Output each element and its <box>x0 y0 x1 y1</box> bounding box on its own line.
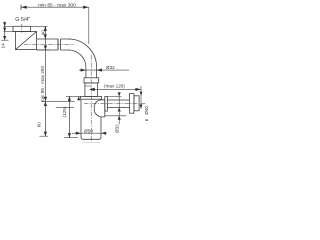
upper body inner line <box>85 85 91 87</box>
cup inner bottom faint <box>82 141 100 143</box>
arrow d32 right <box>97 69 102 72</box>
arrow 60 top <box>44 101 47 106</box>
dimension 40 <box>31 26 48 39</box>
vertical pipe <box>86 67 97 78</box>
inlet nut G5/4 <box>13 26 31 31</box>
arrow right of top dimension <box>83 6 89 9</box>
arrow d32 outlet bottom <box>118 116 121 120</box>
pipe joint line <box>57 39 59 50</box>
bend outer arc <box>69 39 97 67</box>
arrow left of top dimension <box>21 6 27 9</box>
svg-text:(125): (125) <box>62 106 67 117</box>
arrow 40 bottom <box>44 34 47 39</box>
cup joint flange <box>81 96 102 99</box>
flange top extension <box>107 95 121 97</box>
small mark below d40 label <box>145 119 148 121</box>
extension line right of max120 and d40 <box>140 86 142 109</box>
arrow 125 top <box>68 96 71 101</box>
pipe bottom extension <box>37 49 50 51</box>
outlet big nut <box>130 94 134 114</box>
bend inner arc <box>69 50 86 67</box>
svg-text:Ø32: Ø32 <box>106 65 115 70</box>
svg-text:Ø32: Ø32 <box>115 124 120 133</box>
outlet bullet nut at cup <box>94 100 105 117</box>
trap inlet nut <box>84 78 99 83</box>
arrow min85max250 top <box>44 46 47 51</box>
arrow 14 top <box>3 22 6 26</box>
arrow d50 right outside <box>101 132 106 135</box>
trap upper body <box>85 83 98 97</box>
tick at outlet axis <box>42 100 75 102</box>
arrow d32 outlet top <box>118 92 121 96</box>
nut centerline <box>21 24 23 34</box>
horizontal outlet pipe segment 1 <box>37 39 58 50</box>
elbow diagonal <box>16 32 37 50</box>
dimension diameter 32 vertical pipe <box>79 69 129 71</box>
dimension d32 outlet tube <box>118 93 120 124</box>
dimension d50 line <box>72 132 106 134</box>
dimension min 85 - max 250 <box>44 39 46 101</box>
mystery extension line <box>56 107 74 109</box>
svg-text:Ø40: Ø40 <box>144 106 149 115</box>
arrow 40 top <box>44 26 47 31</box>
svg-text:min 85 - max 250: min 85 - max 250 <box>40 66 45 103</box>
outlet centerline <box>84 103 147 105</box>
tick 125 top <box>66 95 81 97</box>
arrow d50 left outside <box>76 132 81 135</box>
arrow min85max250 bottom <box>44 97 47 102</box>
pipe centerline <box>24 44 74 46</box>
tick 125 bottom <box>64 137 78 139</box>
dimension min 85 - max 300 top <box>21 5 89 44</box>
dimension max 120 <box>95 88 141 90</box>
dimension d40 arrows <box>140 92 143 96</box>
outlet end ring d40 <box>134 96 139 111</box>
arrow 14 lower <box>3 36 6 40</box>
svg-text:G 5/4": G 5/4" <box>15 17 30 23</box>
tick 60 bottom <box>39 135 48 137</box>
outlet tube d32 <box>107 100 129 108</box>
arrow 60 bottom <box>44 132 47 137</box>
horizontal pipe segment 2 <box>61 39 71 50</box>
dimension 60 <box>44 101 46 136</box>
dimension (125) <box>68 96 70 137</box>
svg-text:60: 60 <box>36 122 41 128</box>
arrow 125 bottom <box>68 133 71 138</box>
arrow max120 left <box>89 88 95 91</box>
arrow d32 outlet mid <box>118 108 121 112</box>
arrow at cup edge top <box>77 96 80 100</box>
vertical pipe centerline <box>90 55 92 142</box>
svg-text:40: 40 <box>41 30 46 36</box>
dimension 14 left <box>1 22 16 41</box>
arrow 14 middle <box>3 28 6 32</box>
svg-text:14: 14 <box>0 43 5 49</box>
trap cup body <box>81 99 101 139</box>
bullet bottom extension line <box>105 115 126 117</box>
arrow d32 left <box>81 69 86 72</box>
elbow body <box>16 32 37 50</box>
svg-text:(max 120): (max 120) <box>104 84 125 89</box>
svg-text:min 85 - max 300: min 85 - max 300 <box>38 2 76 8</box>
outlet flange <box>105 96 108 111</box>
arrow max120 right <box>135 88 141 91</box>
svg-text:Ø50: Ø50 <box>84 128 93 133</box>
